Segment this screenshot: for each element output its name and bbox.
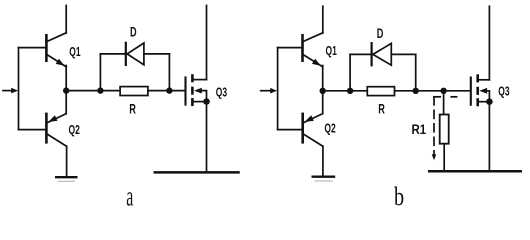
- dashed current path vertical with arrow (b): [432, 97, 437, 160]
- svg-text:b: b: [394, 183, 404, 212]
- wire Q1 emitter to node (b): [322, 66, 324, 91]
- svg-text:Q1: Q1: [69, 45, 80, 59]
- wire diode branch top-right (a): [144, 53, 170, 55]
- svg-text:Q2: Q2: [69, 123, 80, 137]
- wire Q3 source down (a): [206, 102, 208, 173]
- ground terminal (a): [56, 177, 76, 181]
- node R1 junction (b): [440, 88, 446, 94]
- label a: [126, 181, 133, 212]
- mosfet Q3 (a): [186, 76, 210, 105]
- wire Q1 collector to top (a): [65, 5, 67, 33]
- wire R1 lower lead (b): [443, 144, 445, 172]
- wire Q2 emitter from node (b): [322, 91, 324, 114]
- resistor R (b): [367, 87, 394, 96]
- resistor R1 (b): [440, 115, 449, 144]
- transistor Q2 (b) PNP: [303, 114, 323, 147]
- input arrow (circuit b): [261, 88, 277, 94]
- svg-text:Q3: Q3: [498, 85, 509, 99]
- svg-text:R1: R1: [411, 122, 426, 137]
- wire Q2 collector down (b): [322, 146, 324, 176]
- svg-text:D: D: [377, 27, 384, 41]
- wire diode branch top-left (a): [100, 53, 124, 55]
- input bus wire (circuit b): [277, 48, 279, 130]
- wire Q2 base (a): [19, 129, 46, 131]
- wire Q3 source down (b): [488, 102, 490, 172]
- svg-text:a: a: [126, 181, 133, 212]
- wire gate rail left segment (b): [323, 90, 368, 92]
- wire Q1 base (a): [19, 47, 46, 49]
- ground terminal (b): [313, 177, 334, 181]
- wire diode branch top-left (b): [350, 53, 370, 55]
- wire diode branch right riser (b): [415, 54, 417, 90]
- label Q1 (b): [326, 44, 337, 58]
- wire gate rail right segment (b): [395, 90, 471, 92]
- wire Q1 base (b): [278, 47, 302, 49]
- input bus wire (circuit a): [18, 48, 20, 130]
- wire R1 upper lead (b): [443, 91, 445, 115]
- label Q1 (a): [69, 45, 80, 59]
- source rail (b): [429, 170, 521, 173]
- wire diode branch left riser (a): [99, 54, 101, 91]
- label D (b): [377, 27, 384, 41]
- node output junction (a): [63, 87, 69, 93]
- node R/D left junction (b): [347, 88, 353, 94]
- wire diode branch right riser (a): [168, 54, 170, 91]
- transistor Q1 (a) NPN: [46, 33, 66, 67]
- svg-text:Q3: Q3: [216, 86, 227, 100]
- wire gate rail left segment (a): [66, 90, 120, 92]
- label b: [394, 183, 404, 212]
- wire diode branch left riser (b): [349, 54, 351, 90]
- wire Q1 emitter to node (a): [65, 66, 67, 91]
- wire Q2 base (b): [278, 129, 302, 131]
- svg-text:Q2: Q2: [324, 122, 335, 136]
- label Q2 (b): [324, 122, 335, 136]
- svg-text:Q1: Q1: [326, 44, 337, 58]
- transistor Q1 (b) NPN: [303, 33, 323, 67]
- label R (b): [378, 103, 385, 117]
- dashed current path horizontal (b): [434, 96, 457, 98]
- label Q3 (a): [216, 86, 227, 100]
- label Q3 (b): [498, 85, 509, 99]
- node R/D right junction (b): [413, 88, 419, 94]
- diode D (b): [372, 43, 392, 65]
- node R/D right junction (a): [166, 87, 172, 93]
- wire gate rail right segment (a): [148, 90, 186, 92]
- transistor Q2 (a) PNP: [46, 114, 66, 147]
- label R (a): [129, 103, 136, 117]
- wire Q1 collector to top (b): [322, 6, 324, 33]
- diode D (a): [126, 43, 144, 65]
- label Q2 (a): [69, 123, 80, 137]
- wire Q3 drain to top (a): [206, 5, 208, 79]
- label R1 (b): [411, 122, 426, 137]
- wire Q2 collector down (a): [66, 146, 68, 177]
- node R/D left junction (a): [97, 87, 103, 93]
- mosfet Q3 (b): [471, 76, 493, 105]
- wire diode branch top-right (b): [391, 53, 415, 55]
- svg-text:D: D: [130, 26, 137, 40]
- wire Q3 drain to top (b): [488, 6, 490, 80]
- node output junction (b): [320, 88, 326, 94]
- label D (a): [130, 26, 137, 40]
- input arrow (circuit a): [3, 88, 18, 94]
- source rail (a): [155, 171, 239, 174]
- svg-text:R: R: [378, 103, 385, 117]
- wire Q2 emitter from node (a): [65, 91, 67, 114]
- svg-text:R: R: [129, 103, 136, 117]
- resistor R (a): [120, 87, 148, 96]
